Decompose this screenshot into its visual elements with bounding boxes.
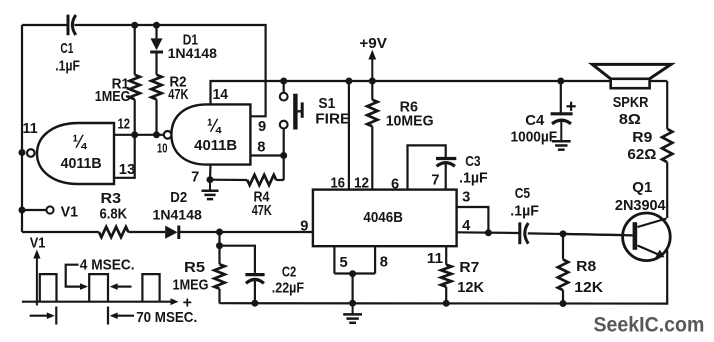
label 4046B pin 4: [462, 218, 471, 234]
label C5: [515, 186, 530, 202]
svg-text:9: 9: [300, 219, 308, 235]
capacitor C4: [551, 114, 573, 124]
resistor R7: [441, 265, 451, 287]
wire R8 bottom lead: [562, 290, 564, 303]
node S1 top junction: [280, 78, 287, 85]
svg-text:1MEG: 1MEG: [173, 278, 209, 294]
label gate2 pin 9: [258, 119, 266, 135]
wire R2 bottom lead: [155, 99, 157, 134]
label C3 value: [459, 170, 488, 186]
wire 4046B pin8 drop: [374, 246, 376, 273]
label Q1: [632, 180, 652, 196]
svg-text:6: 6: [391, 176, 399, 192]
node C2/ground rail: [251, 300, 258, 307]
svg-text:6.8K: 6.8K: [100, 207, 128, 223]
switch S1 top contact: [280, 93, 288, 101]
svg-text:70 MSEC.: 70 MSEC.: [136, 310, 197, 326]
label +9V: [359, 36, 387, 52]
label 4046B pin 6: [391, 176, 399, 192]
label S1 FIRE: [315, 112, 350, 128]
switch S1 bottom contact: [280, 121, 288, 129]
terminal V1: [46, 206, 53, 213]
svg-text:.1µF: .1µF: [459, 170, 488, 186]
waveform pulse 1: [40, 274, 57, 302]
label 4046B pin 8 bottom: [380, 254, 388, 270]
label waveform V1: [30, 236, 46, 252]
svg-text:4: 4: [462, 218, 471, 234]
label gate1 pin 12: [118, 117, 131, 133]
label R1: [112, 77, 130, 93]
label C1 value: [55, 59, 80, 75]
label gate2 pin 10: [157, 141, 167, 156]
waveform tick 1: [55, 307, 57, 325]
wire row from left rail to R3: [22, 231, 99, 233]
label 4046B pin 11: [427, 251, 443, 267]
label gate2 4011B: [194, 138, 237, 154]
svg-text:5: 5: [340, 255, 348, 271]
label SPKR: [613, 95, 649, 111]
wire 4046B pin3 loop: [457, 207, 489, 233]
label 4046B pin 5: [340, 255, 348, 271]
label 4046B: [363, 210, 403, 226]
waveform 4msec bracket: [66, 265, 88, 290]
label gate2 pin 7: [191, 170, 199, 186]
svg-text:.1µF: .1µF: [510, 204, 539, 220]
resistor R9: [662, 129, 672, 162]
label C5 value: [510, 204, 539, 220]
wire top rail left segment (C1 left lead): [22, 24, 68, 26]
label R4: [254, 190, 271, 206]
resistor R2: [151, 75, 161, 100]
node pin8/R4 junction: [280, 152, 287, 159]
wire node A down: [218, 232, 220, 264]
label SPKR impedance: [619, 112, 641, 128]
wire C4 stem: [560, 81, 562, 113]
label R7 value: [457, 280, 484, 296]
node R2/D1 bottom junction: [153, 131, 160, 138]
label D2 value: [153, 208, 203, 223]
svg-text:11: 11: [23, 121, 38, 137]
svg-text:14: 14: [213, 87, 229, 103]
label R2 value: [168, 87, 188, 103]
wire R9 to Q1 collector: [666, 162, 668, 218]
wire V1 stub: [22, 209, 46, 211]
wire pin12-pin13 tie: [114, 135, 135, 178]
wire left rail (gate1 output / V1 column): [21, 25, 23, 232]
svg-text:11: 11: [427, 251, 443, 267]
label gate2 1/4: [207, 116, 222, 136]
capacitor C2: [245, 275, 264, 284]
wire R5 to ground rail: [218, 289, 220, 304]
svg-text:S1: S1: [318, 96, 335, 112]
label S1: [318, 96, 335, 112]
wire 4046B pin6 loop: [408, 145, 446, 189]
svg-text:FIRE: FIRE: [315, 112, 350, 128]
waveform pulse 2: [89, 274, 108, 302]
label C1: [60, 41, 73, 57]
wire C2 branch top: [220, 246, 255, 273]
power +9V arrow: [368, 50, 376, 81]
svg-text:C1: C1: [60, 41, 73, 57]
svg-text:+9V: +9V: [359, 36, 387, 52]
wire gate2 pin 8 row: [250, 154, 283, 156]
ground 4046B: [343, 303, 362, 323]
label R3 value: [100, 207, 128, 223]
svg-text:+: +: [183, 295, 192, 312]
label R1 value: [95, 89, 131, 105]
svg-text:13: 13: [119, 162, 135, 178]
resistor R1: [130, 75, 140, 100]
wire pin8 node down to R4: [283, 156, 285, 181]
label C4: [525, 113, 545, 129]
op-gate U1a 4011B body: [27, 123, 114, 184]
label D1 value: [168, 46, 218, 61]
svg-text:47K: 47K: [168, 87, 188, 103]
node pin16 riser junction: [345, 78, 352, 85]
svg-text:12: 12: [118, 117, 131, 133]
ic U2 4046B box: [313, 190, 457, 247]
wire R3 to D2: [128, 231, 165, 233]
svg-text:3: 3: [462, 190, 470, 206]
svg-text:4 MSEC.: 4 MSEC.: [80, 257, 135, 273]
transistor Q1 emitter lead: [638, 246, 665, 258]
node R6 top junction: [369, 78, 376, 85]
waveform 70msec right arrow: [110, 312, 134, 319]
svg-text:V1: V1: [30, 236, 46, 252]
waveform 70msec left arrow: [30, 312, 55, 319]
svg-text:C3: C3: [465, 154, 480, 170]
switch S1 plunger: [293, 94, 304, 130]
node R8/ground rail: [560, 300, 567, 307]
svg-text:¼: ¼: [207, 116, 222, 136]
label R3: [101, 191, 122, 207]
wire ground stem: [352, 274, 354, 304]
svg-text:R7: R7: [459, 260, 479, 276]
label R7: [459, 260, 479, 276]
svg-text:SeekIC.com: SeekIC.com: [594, 313, 705, 337]
label gate2 pin 14: [213, 87, 229, 103]
wire ground rail: [220, 250, 668, 304]
node R7/ground rail: [443, 300, 450, 307]
label D2: [170, 190, 187, 206]
wire gate2 pin14 riser and +9V rail: [211, 81, 668, 104]
svg-text:D2: D2: [170, 190, 187, 206]
svg-text:SPKR: SPKR: [613, 95, 649, 111]
svg-text:¼: ¼: [73, 132, 88, 152]
wire D1 top lead: [155, 25, 157, 38]
label 4046B pin 12: [354, 175, 369, 191]
capacitor C3: [436, 159, 456, 167]
wire R6 top lead: [371, 81, 373, 100]
wire 4046B pin 4 row: [457, 231, 520, 234]
svg-text:8: 8: [380, 254, 388, 270]
label gate1 pin 11: [23, 121, 38, 137]
capacitor C4 plus sign: [567, 102, 576, 111]
capacitor C5: [520, 222, 529, 244]
node 4046B ground stem: [349, 300, 356, 307]
wire R9 top lead: [666, 81, 668, 129]
waveform voltage axis: [33, 250, 40, 306]
node C4 top junction: [557, 78, 564, 85]
label R6 value: [386, 113, 434, 129]
wire D2 to 4046B pin 9: [179, 231, 313, 233]
wire S1 bottom to pin8 node: [283, 129, 285, 156]
label gate1 4011B: [61, 156, 102, 172]
label 4046B pin 3: [462, 190, 470, 206]
wire 4046B pin16 riser: [348, 81, 350, 190]
transistor Q1 base bar: [633, 222, 638, 250]
resistor R4: [247, 175, 276, 185]
svg-text:1000µF: 1000µF: [511, 130, 558, 146]
label R5 value: [173, 278, 209, 294]
svg-text:7: 7: [191, 170, 199, 186]
svg-text:C2: C2: [282, 265, 296, 281]
wire 4046B pin5 drop: [333, 246, 335, 273]
svg-text:.22µF: .22µF: [272, 281, 304, 297]
label 4 MSEC: [80, 257, 135, 273]
label gate1 pin 13: [119, 162, 135, 178]
wire R1 bottom lead: [134, 99, 136, 134]
node pin5/8 ground junction: [349, 270, 356, 277]
ground C4: [552, 141, 571, 149]
label C2 value: [272, 281, 304, 297]
svg-text:1MEG: 1MEG: [95, 89, 131, 105]
diode D1: [150, 38, 163, 52]
resistor R6: [367, 100, 377, 127]
node R1 top on rail: [131, 22, 138, 29]
watermark SeekIC.com: [594, 313, 705, 337]
wire gate2 pin 7 drop: [209, 165, 212, 180]
svg-text:9: 9: [258, 119, 266, 135]
diode D2: [165, 226, 179, 240]
svg-text:47K: 47K: [252, 203, 272, 219]
label C4 value: [511, 130, 558, 146]
label waveform plus: [183, 295, 192, 312]
wire S1 top contact riser: [283, 81, 285, 93]
svg-text:R9: R9: [632, 130, 652, 146]
node R1 bottom junction: [131, 131, 138, 138]
wire C5 to Q1 base: [528, 233, 633, 235]
svg-text:4046B: 4046B: [363, 210, 403, 226]
svg-text:Q1: Q1: [632, 180, 652, 196]
wire R4 right lead: [276, 179, 284, 181]
svg-text:R8: R8: [576, 259, 596, 275]
resistor R5: [214, 264, 224, 289]
wire R1 top lead: [134, 25, 136, 75]
wire 4046B pin11 drop: [445, 246, 447, 265]
label gate2 pin 8: [257, 140, 265, 156]
speaker SPKR box: [611, 79, 650, 88]
label R8: [576, 259, 596, 275]
op-gate U1b 4011B body: [164, 104, 251, 164]
waveform 4msec right arrow: [110, 283, 132, 290]
waveform tick 2: [107, 307, 109, 325]
wire Q1 base lead: [563, 234, 633, 236]
svg-text:4011B: 4011B: [194, 138, 237, 154]
svg-text:1N4148: 1N4148: [153, 208, 203, 223]
svg-text:2N3904: 2N3904: [615, 198, 667, 214]
svg-text:1N4148: 1N4148: [168, 46, 218, 61]
svg-text:62Ω: 62Ω: [627, 147, 656, 163]
svg-text:12K: 12K: [457, 280, 484, 296]
label 4046B pin 7: [431, 172, 439, 188]
label R6: [400, 99, 418, 115]
svg-text:R5: R5: [184, 260, 205, 276]
wire top rail right segment + riser to gate2 pin 9: [74, 25, 265, 116]
ground gate2 pin7: [202, 180, 219, 199]
speaker SPKR horn: [592, 64, 671, 78]
svg-text:4011B: 4011B: [61, 156, 102, 172]
resistor R8: [558, 260, 568, 291]
node D1 top on rail: [153, 22, 160, 29]
label R2: [170, 75, 187, 91]
svg-text:V1: V1: [61, 205, 79, 221]
label R9: [632, 130, 652, 146]
svg-text:16: 16: [331, 175, 346, 191]
node V1 junction: [19, 207, 26, 214]
node A junction (R5/C2 tap): [216, 229, 223, 236]
node gate1 output junction: [19, 149, 26, 156]
label Q1 type: [615, 198, 667, 214]
label R5: [184, 260, 205, 276]
label 70 MSEC: [136, 310, 197, 326]
wire R6 to 4046B pin 12: [371, 126, 373, 189]
svg-text:R3: R3: [101, 191, 122, 207]
wire R7 bottom lead: [445, 287, 447, 304]
svg-text:10MEG: 10MEG: [386, 113, 434, 129]
svg-text:8Ω: 8Ω: [619, 112, 641, 128]
label C3: [465, 154, 480, 170]
node R8 top junction: [560, 230, 567, 237]
label gate1 1/4: [73, 132, 88, 152]
svg-text:7: 7: [431, 172, 439, 188]
label R9 value: [627, 147, 656, 163]
node R5/C2 tee: [216, 242, 223, 249]
wire R8 top lead: [562, 234, 564, 260]
transistor Q1 collector lead: [638, 219, 667, 228]
svg-text:.1µF: .1µF: [55, 59, 80, 75]
wire D1 to R2: [155, 52, 157, 75]
wire C4 bottom lead: [560, 121, 562, 141]
label R4 value: [252, 203, 272, 219]
waveform time axis: [22, 298, 179, 305]
waveform pulse 3: [142, 274, 159, 302]
node gate2 pin7 junction: [207, 176, 214, 183]
wire C2 bottom: [254, 281, 256, 304]
wire R4 left lead: [210, 179, 247, 182]
svg-text:8: 8: [257, 140, 265, 156]
capacitor C1: [68, 15, 76, 36]
wire pin5-pin8 connector: [334, 272, 375, 274]
label 4046B pin 16: [331, 175, 346, 191]
svg-text:12K: 12K: [574, 280, 603, 296]
transistor Q1 body: [623, 213, 671, 261]
label V1 terminal: [61, 205, 79, 221]
svg-text:C4: C4: [525, 113, 545, 129]
svg-text:C5: C5: [515, 186, 530, 202]
svg-text:12: 12: [354, 175, 369, 191]
wire C3 to 4046B pin 7: [445, 164, 447, 190]
svg-text:10: 10: [157, 141, 167, 156]
label D1: [183, 33, 198, 49]
node pin3/pin4 junction: [485, 229, 492, 236]
label R8 value: [574, 280, 603, 296]
label C2: [282, 265, 296, 281]
wire gate1 pin12 row to gate2 output: [114, 134, 164, 136]
label 4046B pin 9: [300, 219, 308, 235]
resistor R3: [99, 227, 128, 237]
